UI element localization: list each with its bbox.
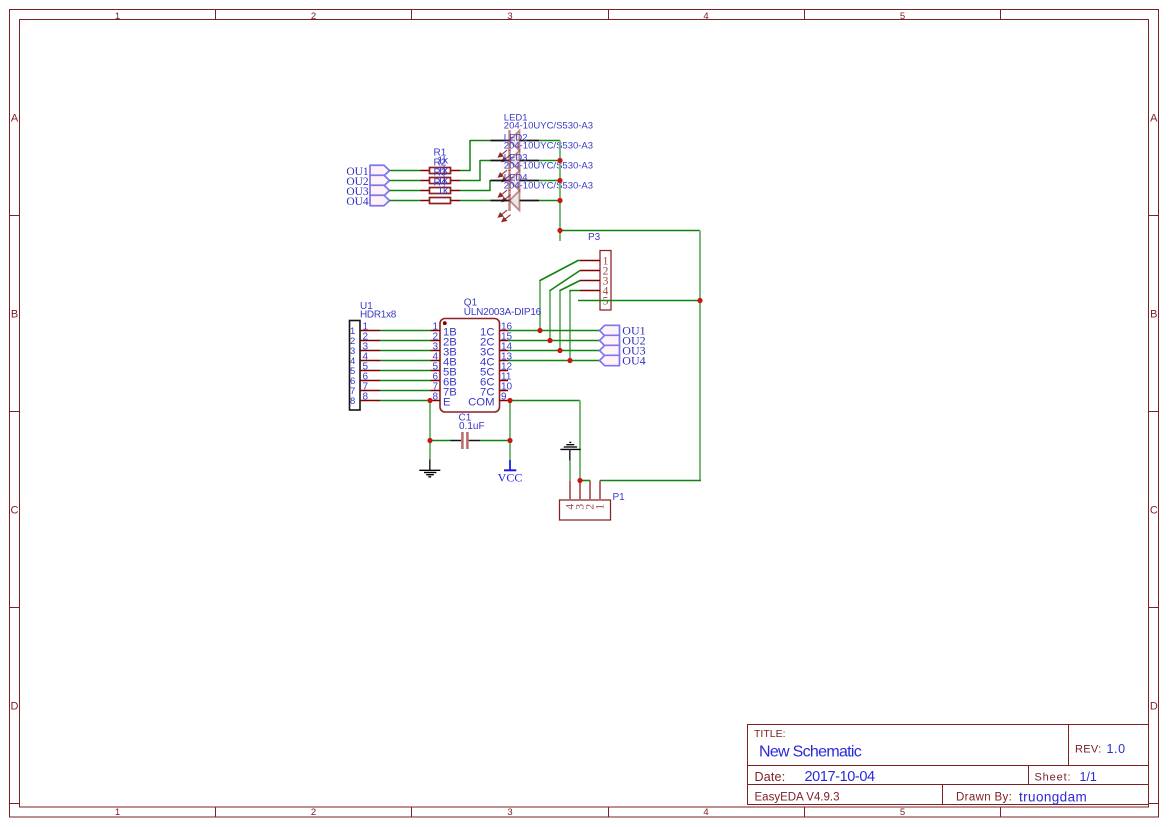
junction dot (510,400.5) xyxy=(507,398,512,403)
svg-text:P3: P3 xyxy=(588,232,601,243)
svg-text:Sheet:: Sheet: xyxy=(1035,772,1072,784)
junction dot (430,400.5) xyxy=(427,398,432,403)
junction dot (430,440.5) xyxy=(427,438,432,443)
Q1 right pin 15 (2C) xyxy=(480,332,513,349)
svg-text:5: 5 xyxy=(603,295,609,307)
svg-text:truongdam: truongdam xyxy=(1019,789,1087,804)
wire U1 pin2 to Q1 xyxy=(380,340,431,342)
wire horizontal y=230 bus to corner xyxy=(560,230,700,232)
junction dot (560,200.5) xyxy=(557,198,562,203)
LED D4 symbol (LED4) xyxy=(491,190,540,222)
wire vertical LED bus x=560 xyxy=(559,141,561,242)
Q1 right pin 10 (7C) xyxy=(480,382,513,399)
wire C1 left xyxy=(430,440,451,442)
resistor R2 1k xyxy=(421,178,461,184)
Q1 left pin 2 (2B) xyxy=(431,332,457,349)
svg-text:1.0: 1.0 xyxy=(1107,742,1126,756)
wire OU4 flag to R4 xyxy=(390,200,421,202)
svg-text:B: B xyxy=(11,309,18,321)
svg-text:ULN2003A-DIP16: ULN2003A-DIP16 xyxy=(464,307,542,318)
wire P3 pin4 to Q1 4C xyxy=(570,291,580,360)
wire P1 pin3 to pin2 xyxy=(580,480,590,482)
svg-text:204-10UYC/S530-A3: 204-10UYC/S530-A3 xyxy=(504,120,593,131)
svg-text:1: 1 xyxy=(595,504,607,510)
connector P3 xyxy=(580,251,611,311)
Q1 left pin 3 (3B) xyxy=(431,342,457,359)
LED D1 symbol (LED1) xyxy=(491,130,540,162)
wire C1 right xyxy=(480,440,510,442)
svg-text:E: E xyxy=(443,397,451,409)
Q1 left pin 6 (6B) xyxy=(431,372,457,389)
wire U1 pin6 to Q1 xyxy=(380,380,431,382)
Q1 right pin 9 (COM) xyxy=(468,392,508,409)
junction dot (550,340.5) xyxy=(547,338,552,343)
junction dot (510,440.5) xyxy=(507,438,512,443)
svg-text:5: 5 xyxy=(900,807,905,818)
U1 pin numbers (wire side) xyxy=(363,322,369,403)
svg-text:4: 4 xyxy=(703,11,708,22)
LED D3 symbol (LED3) xyxy=(491,170,540,202)
IC Q1 ULN2003A-DIP16 body xyxy=(440,319,500,413)
wire LED2 cathode to bus xyxy=(539,160,560,162)
svg-text:204-10UYC/S530-A3: 204-10UYC/S530-A3 xyxy=(504,180,593,191)
svg-text:A: A xyxy=(11,113,19,125)
wire COM to P1 pin3 horizontal xyxy=(510,400,580,402)
wire R2 to LED2 xyxy=(460,161,491,181)
Q1 right pin 11 (6C) xyxy=(480,372,512,389)
junction dot (560,160.5) xyxy=(557,158,562,163)
svg-text:P1: P1 xyxy=(613,492,626,503)
svg-text:204-10UYC/S530-A3: 204-10UYC/S530-A3 xyxy=(504,160,593,171)
net flag OU4 (input, left) xyxy=(346,195,389,208)
svg-text:Date:: Date: xyxy=(755,770,786,784)
svg-text:8: 8 xyxy=(350,396,355,407)
wire P3 pin1 to Q1 1C xyxy=(540,261,580,330)
net flag OU4 (output, right) xyxy=(600,353,646,367)
svg-text:VCC: VCC xyxy=(498,470,523,484)
wire R4 to LED4 xyxy=(460,200,491,202)
Q1 left pin 1 (1B) xyxy=(431,322,457,339)
junction dot (570,360.5) xyxy=(567,358,572,363)
svg-text:4: 4 xyxy=(703,807,708,818)
junction dot (580,480.5) xyxy=(577,478,582,483)
net flag OU2 (input, left) xyxy=(346,175,389,188)
svg-text:2017-10-04: 2017-10-04 xyxy=(805,769,876,785)
svg-text:C: C xyxy=(11,505,19,517)
svg-text:1: 1 xyxy=(115,11,120,22)
Q1 left pin 4 (4B) xyxy=(431,352,457,369)
resistor R4 1k xyxy=(421,198,461,204)
wire R3 to LED3 xyxy=(460,181,491,191)
wire LED1 cathode to bus xyxy=(539,140,560,142)
wire Q1 4C to OU4 flag xyxy=(508,360,600,362)
svg-text:HDR1x8: HDR1x8 xyxy=(360,310,397,321)
resistor R3 1k xyxy=(421,188,461,194)
svg-text:A: A xyxy=(1150,113,1158,125)
ground symbol (C1 / E net) xyxy=(419,441,440,477)
svg-text:1/1: 1/1 xyxy=(1080,770,1097,784)
svg-text:COM: COM xyxy=(468,397,494,409)
svg-text:D: D xyxy=(1150,701,1158,713)
net flag OU3 (input, left) xyxy=(346,185,389,198)
capacitor C1 0.1uF xyxy=(451,432,481,449)
wire OU3 flag to R3 xyxy=(390,190,421,192)
Q1 left pin 7 (7B) xyxy=(431,382,457,399)
svg-text:C: C xyxy=(1150,505,1158,517)
svg-text:OU4: OU4 xyxy=(346,196,369,208)
wire U1 pin4 to Q1 xyxy=(380,360,431,362)
wire LED4 cathode to bus xyxy=(539,200,560,202)
wire E net vertical to C1 xyxy=(429,401,431,441)
net flag OU2 (output, right) xyxy=(600,333,646,347)
svg-text:5: 5 xyxy=(900,11,905,22)
wire R1 to LED1 xyxy=(460,141,491,171)
junction dot (560,180.5) xyxy=(557,178,562,183)
svg-text:EasyEDA V4.9.3: EasyEDA V4.9.3 xyxy=(755,792,840,804)
wire Q1 3C to OU3 flag xyxy=(508,350,600,352)
svg-text:D: D xyxy=(11,701,19,713)
wire OU1 flag to R1 xyxy=(390,170,421,172)
svg-text:8: 8 xyxy=(432,392,438,403)
svg-text:2: 2 xyxy=(311,807,316,818)
Q1 left pin 8 (E) xyxy=(431,392,452,409)
svg-text:0.1uF: 0.1uF xyxy=(459,421,485,432)
Q1 right pin 14 (3C) xyxy=(480,342,513,359)
svg-text:REV:: REV: xyxy=(1075,744,1101,756)
connector P1 xyxy=(560,481,611,521)
svg-text:TITLE:: TITLE: xyxy=(754,728,786,740)
svg-text:9: 9 xyxy=(501,392,507,403)
wire P3 pin3 to Q1 3C xyxy=(560,281,580,350)
wire OU2 flag to R2 xyxy=(390,180,421,182)
svg-text:204-10UYC/S530-A3: 204-10UYC/S530-A3 xyxy=(504,140,593,151)
junction dot (700,300.5) xyxy=(697,298,702,303)
frame row letters right xyxy=(1150,113,1158,713)
svg-text:3: 3 xyxy=(507,807,512,818)
Q1 right pin 16 (1C) xyxy=(480,322,513,339)
junction dot (540,330.5) xyxy=(537,328,542,333)
wire COM net vertical to VCC xyxy=(509,401,511,461)
wire U1 pin8 to Q1 xyxy=(380,400,431,402)
connector U1 HDR1x8 xyxy=(350,321,381,411)
ground symbol (P1 pin4, inverted) xyxy=(560,442,580,480)
title block xyxy=(748,725,1149,805)
svg-text:8: 8 xyxy=(363,392,369,403)
net flag OU1 (output, right) xyxy=(600,323,646,337)
resistor R1 1k xyxy=(421,168,461,174)
VCC power symbol xyxy=(498,460,523,484)
svg-text:2: 2 xyxy=(311,11,316,22)
Q1 right pin 13 (4C) xyxy=(480,352,513,369)
frame column numbers bottom xyxy=(115,807,905,818)
Q1 right pin 12 (5C) xyxy=(480,362,513,379)
wire P1 pin3 vertical xyxy=(579,401,581,481)
wire Q1 2C to OU2 flag xyxy=(508,340,600,342)
svg-text:1: 1 xyxy=(115,807,120,818)
svg-text:Drawn By:: Drawn By: xyxy=(956,792,1012,804)
wire U1 pin3 to Q1 xyxy=(380,350,431,352)
svg-text:New Schematic: New Schematic xyxy=(759,744,862,761)
wire P3 pin5 to x=700 vertical xyxy=(578,300,700,302)
junction dot (560,230.5) xyxy=(557,228,562,233)
junction dot (560,350.5) xyxy=(557,348,562,353)
svg-text:OU4: OU4 xyxy=(622,353,645,367)
net flag OU1 (input, left) xyxy=(346,165,389,178)
LED D2 symbol (LED2) xyxy=(491,150,540,182)
svg-text:1k: 1k xyxy=(438,186,450,197)
wire Q1 1C to OU1 flag xyxy=(508,330,600,332)
svg-text:B: B xyxy=(1150,309,1157,321)
wire U1 pin5 to Q1 xyxy=(380,370,431,372)
wire P1 pin1 to x=700 vertical xyxy=(600,480,701,482)
frame row letters left xyxy=(11,113,19,713)
wire U1 pin7 to Q1 xyxy=(380,390,431,392)
frame column numbers top xyxy=(115,11,905,22)
net flag OU3 (output, right) xyxy=(600,343,646,357)
svg-text:3: 3 xyxy=(507,11,512,22)
wire LED3 cathode to bus xyxy=(539,180,560,182)
wire vertical x=700 to P1 row xyxy=(699,231,701,481)
Q1 left pin 5 (5B) xyxy=(431,362,457,379)
wire P3 pin2 to Q1 2C xyxy=(550,271,580,340)
wire U1 pin1 to Q1 xyxy=(380,330,431,332)
